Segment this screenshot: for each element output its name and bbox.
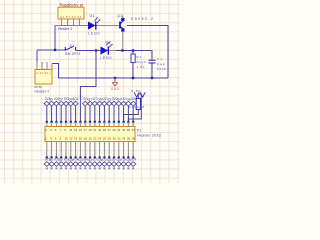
bottom pin 14 of P1 <box>75 142 77 158</box>
port flag (top pin 21) <box>92 101 97 106</box>
port flag (top pin 17) <box>83 101 88 106</box>
port flag (top pin 27) <box>107 101 112 106</box>
svg-text:34: 34 <box>122 136 126 140</box>
terminator mark (bottom pin 18) <box>84 167 86 169</box>
wire to top pin 33 <box>123 106 125 122</box>
svg-text:P1: P1 <box>137 129 141 133</box>
wire Q1 emitter down <box>122 34 124 51</box>
junction (top pin 7) <box>60 121 62 123</box>
port flag (top pin 7) <box>59 101 64 106</box>
ground symbol GND <box>112 78 118 86</box>
wire to top pin 19 <box>89 106 91 122</box>
wire to top pin 15 <box>79 106 81 122</box>
port flag (bottom pin 26) <box>102 162 107 167</box>
port flag (bottom pin 22) <box>92 162 97 167</box>
bottom pin 20 of P1 <box>89 142 91 158</box>
svg-text:27: 27 <box>108 128 112 132</box>
junction (bottom pin 2) <box>46 156 48 158</box>
port flag (bottom pin 34) <box>121 162 126 167</box>
svg-text:37: 37 <box>132 128 136 132</box>
terminator mark (bottom pin 4) <box>51 167 53 169</box>
wire to top pin 17 <box>84 106 86 122</box>
junction (bottom pin 20) <box>89 156 91 158</box>
terminator mark (bottom pin 22) <box>94 167 96 169</box>
port flag (top pin 9) <box>63 101 68 106</box>
svg-text:GL5528: GL5528 <box>129 105 145 109</box>
port flag (bottom pin 20) <box>87 162 92 167</box>
top pin 5 of P1 <box>55 122 57 127</box>
svg-text:35: 35 <box>127 128 131 132</box>
wire to top pin 1 <box>46 106 48 122</box>
svg-text:GND: GND <box>111 87 120 91</box>
bottom pin 6 of P1 <box>55 142 57 158</box>
junction (bottom pin 10) <box>65 156 67 158</box>
bottom pin 8 of P1 <box>60 142 62 158</box>
junction at 96,50 <box>95 49 97 51</box>
bottom pin 12 of P1 <box>70 142 72 158</box>
transistor Q1 <box>120 16 125 35</box>
wire R2 bottom terminal to header <box>124 110 139 123</box>
svg-text:25: 25 <box>103 128 107 132</box>
terminator mark (bottom pin 34) <box>123 167 125 169</box>
svg-text:18: 18 <box>84 136 88 140</box>
junction (top pin 29) <box>113 121 115 123</box>
bottom pin 10 of P1 <box>65 142 67 158</box>
junction (bottom pin 26) <box>103 156 105 158</box>
svg-text:12: 12 <box>69 136 73 140</box>
connector P1 GPIO header box <box>45 127 135 142</box>
wire to top pin 9 <box>65 106 67 122</box>
terminator mark (bottom pin 28) <box>108 167 110 169</box>
wire switch net down to J2 pin1 <box>36 51 38 63</box>
junction (bottom pin 6) <box>55 156 57 158</box>
terminator mark (bottom pin 26) <box>103 167 105 169</box>
svg-text:D2: D2 <box>106 40 112 44</box>
wire left segment to S1 <box>37 49 65 51</box>
top pin 35 of P1 <box>127 122 129 127</box>
svg-text:26: 26 <box>103 136 107 140</box>
junction (bottom pin 18) <box>84 156 86 158</box>
port flag (bottom pin 4) <box>49 162 54 167</box>
pin 3 of J1 <box>73 19 75 25</box>
connector J2 (slim header) box <box>35 70 52 85</box>
top pin 33 of P1 <box>123 122 125 127</box>
wire R2 top terminal to header <box>128 94 141 122</box>
junction (top pin 17) <box>84 121 86 123</box>
svg-text:C1: C1 <box>157 57 162 61</box>
junction (top pin 5) <box>55 121 57 123</box>
junction (top pin 37) <box>132 121 134 123</box>
port flag (top pin 35) <box>126 101 131 106</box>
svg-text:14: 14 <box>74 136 78 140</box>
junction (bottom pin 36) <box>127 156 129 158</box>
svg-text:16: 16 <box>79 136 83 140</box>
port flag (bottom pin 6) <box>54 162 59 167</box>
wire D2 cathode to R1/C1 <box>109 50 116 52</box>
terminator mark (bottom pin 10) <box>65 167 67 169</box>
port flag (top pin 33) <box>121 101 126 106</box>
svg-text:LED0: LED0 <box>88 31 100 35</box>
wire J2 pin4 to ground rail <box>52 64 59 79</box>
port flag (bottom pin 14) <box>73 162 78 167</box>
capacitor C1 <box>149 60 156 63</box>
svg-text:Header 4: Header 4 <box>35 89 50 93</box>
top pin 11 of P1 <box>70 122 72 127</box>
wire to top pin 35 <box>127 106 129 122</box>
bottom pins of P1 <box>44 142 136 170</box>
bottom pin 30 of P1 <box>113 142 115 158</box>
svg-text:5.5K: 5.5K <box>131 89 141 93</box>
terminator mark (bottom pin 38) <box>132 167 134 169</box>
top pins of P1 <box>44 97 136 127</box>
svg-text:Q1: Q1 <box>117 14 123 18</box>
port flag (bottom pin 38) <box>131 162 136 167</box>
bottom pin 38 of P1 <box>132 142 134 158</box>
junction (bottom pin 38) <box>132 156 134 158</box>
wire to top pin 5 <box>55 106 57 122</box>
svg-text:S8050-2: S8050-2 <box>131 17 153 21</box>
top pin 31 of P1 <box>118 122 120 127</box>
wire C1 bottom to rail <box>151 64 153 79</box>
svg-text:17: 17 <box>84 128 88 132</box>
svg-text:IO9: IO9 <box>131 158 136 162</box>
bottom pin 24 of P1 <box>99 142 101 158</box>
svg-text:Raspberry pi: Raspberry pi <box>60 2 84 7</box>
port flag (top pin 29) <box>111 101 116 106</box>
svg-text:10uF: 10uF <box>157 67 166 71</box>
svg-text:S1: S1 <box>70 44 75 48</box>
svg-text:Res2: Res2 <box>137 60 146 64</box>
junction (bottom pin 12) <box>70 156 72 158</box>
junction (bottom pin 24) <box>99 156 101 158</box>
bottom pin 2 of P1 <box>46 142 48 158</box>
svg-text:D1: D1 <box>90 14 95 18</box>
wire S1 to D2 anode <box>76 50 101 52</box>
pin number rows inside P1 <box>45 128 135 140</box>
wire from J1 pins to D1 anode <box>55 25 88 27</box>
junction (top pin 3) <box>51 121 53 123</box>
top pin 37 of P1 <box>132 122 134 127</box>
terminator mark (bottom pin 16) <box>79 167 81 169</box>
wire to top pin 13 <box>75 106 77 122</box>
port flag (top pin 11) <box>68 101 73 106</box>
LED D1 <box>88 18 100 30</box>
port flag (top pin 19) <box>87 101 92 106</box>
port flag (bottom pin 10) <box>63 162 68 167</box>
junction (bottom pin 22) <box>94 156 96 158</box>
junction (top pin 15) <box>79 121 81 123</box>
svg-text:Header 20X2: Header 20X2 <box>137 134 161 138</box>
svg-text:30: 30 <box>112 136 116 140</box>
junction (bottom pin 14) <box>75 156 77 158</box>
top pin 9 of P1 <box>65 122 67 127</box>
svg-text:31: 31 <box>117 128 121 132</box>
port flag (bottom pin 8) <box>59 162 64 167</box>
terminator mark (bottom pin 14) <box>75 167 77 169</box>
wire to top pin 31 <box>118 106 120 122</box>
junction (bottom pin 16) <box>79 156 81 158</box>
bottom pin 32 of P1 <box>118 142 120 158</box>
port flag (top pin 25) <box>102 101 107 106</box>
top pin 23 of P1 <box>99 122 101 127</box>
port flag (top pin 37) <box>131 101 136 106</box>
wire switch net drop to header P1 <box>80 51 96 107</box>
wire to top pin 7 <box>60 106 62 122</box>
svg-text:36: 36 <box>127 136 131 140</box>
bottom pin 22 of P1 <box>94 142 96 158</box>
svg-text:10: 10 <box>64 136 68 140</box>
junction (bottom pin 4) <box>51 156 53 158</box>
switch S1 <box>65 46 75 50</box>
svg-text:IO9: IO9 <box>131 97 136 101</box>
junction (top pin 35) <box>127 121 129 123</box>
terminator mark (bottom pin 8) <box>60 167 62 169</box>
svg-text:24: 24 <box>98 136 102 140</box>
junction (top pin 9) <box>65 121 67 123</box>
wire Q1 collector to right rail <box>127 26 168 79</box>
svg-text:LED0: LED0 <box>100 56 112 60</box>
pin 2 of J1 <box>67 19 69 25</box>
bottom pin 28 of P1 <box>108 142 110 158</box>
junction (top pin 31) <box>118 121 120 123</box>
junction at 133,78 <box>132 77 134 79</box>
svg-text:38: 38 <box>132 136 136 140</box>
top pin 1 of P1 <box>46 122 48 127</box>
top pin 3 of P1 <box>51 122 53 127</box>
connector J1 Raspberry pi header box <box>58 7 84 19</box>
svg-text:21: 21 <box>93 128 97 132</box>
wire to top pin 29 <box>113 106 115 122</box>
junction (top pin 19) <box>89 121 91 123</box>
junction at 122.5,50 <box>121 49 123 51</box>
terminator mark (bottom pin 20) <box>89 167 91 169</box>
junction (top pin 25) <box>103 121 105 123</box>
pin 1 of J1 <box>61 19 63 25</box>
port flag (bottom pin 2) <box>44 162 49 167</box>
junction (bottom pin 8) <box>60 156 62 158</box>
top pin 27 of P1 <box>108 122 110 127</box>
svg-text:32: 32 <box>117 136 121 140</box>
junction (top pin 27) <box>108 121 110 123</box>
wire to top pin 25 <box>103 106 105 122</box>
junction at 55,50 <box>54 49 56 51</box>
junction (top pin 33) <box>123 121 125 123</box>
svg-text:28: 28 <box>108 136 112 140</box>
bottom pin 4 of P1 <box>51 142 53 158</box>
junction (bottom pin 30) <box>113 156 115 158</box>
svg-text:15: 15 <box>79 128 83 132</box>
port flag (bottom pin 24) <box>97 162 102 167</box>
svg-text:Cap: Cap <box>157 62 165 66</box>
svg-text:R1: R1 <box>137 55 142 59</box>
junction (bottom pin 28) <box>108 156 110 158</box>
port flag (bottom pin 16) <box>78 162 83 167</box>
svg-text:29: 29 <box>112 128 116 132</box>
svg-text:22: 22 <box>93 136 97 140</box>
LED D2 <box>101 42 113 55</box>
svg-text:SW-SPST: SW-SPST <box>65 52 81 56</box>
top pin 19 of P1 <box>89 122 91 127</box>
port flag (bottom pin 36) <box>126 162 131 167</box>
port flag (top pin 23) <box>97 101 102 106</box>
ground rail wire <box>59 77 169 79</box>
port flag (bottom pin 18) <box>83 162 88 167</box>
bottom pin 36 of P1 <box>127 142 129 158</box>
wire to top pin 21 <box>94 106 96 122</box>
junction (top pin 21) <box>94 121 96 123</box>
port flag (top pin 5) <box>54 101 59 106</box>
svg-text:20: 20 <box>88 136 92 140</box>
port flag (bottom pin 28) <box>107 162 112 167</box>
junction (bottom pin 34) <box>123 156 125 158</box>
port flag (bottom pin 32) <box>116 162 121 167</box>
pin 1 of J2 <box>36 62 38 70</box>
junction (top pin 23) <box>99 121 101 123</box>
wire J1 pin1 down to switch <box>54 26 56 51</box>
svg-text:19: 19 <box>88 128 92 132</box>
wire to top pin 27 <box>108 106 110 122</box>
terminator mark (bottom pin 6) <box>55 167 57 169</box>
terminator mark (bottom pin 24) <box>99 167 101 169</box>
junction (top pin 11) <box>70 121 72 123</box>
bottom pin 26 of P1 <box>103 142 105 158</box>
wire to top pin 23 <box>99 106 101 122</box>
resistor R1 <box>131 51 135 79</box>
svg-text:33: 33 <box>122 128 126 132</box>
junction (top pin 1) <box>46 121 48 123</box>
bottom pin 34 of P1 <box>123 142 125 158</box>
bottom pin 16 of P1 <box>79 142 81 158</box>
port flag (top pin 3) <box>49 101 54 106</box>
svg-text:w1 P1 P2 G1: w1 P1 P2 G1 <box>60 15 82 19</box>
wire to top pin 3 <box>51 106 53 122</box>
junction at 152,78 <box>151 77 153 79</box>
svg-text:IO4: IO4 <box>73 97 78 101</box>
terminator mark (bottom pin 30) <box>113 167 115 169</box>
svg-text:11: 11 <box>69 128 72 132</box>
svg-text:1.8K: 1.8K <box>137 65 145 69</box>
svg-text:13: 13 <box>74 128 78 132</box>
svg-text:w P1 P2 x: w P1 P2 x <box>37 72 52 75</box>
port flag (top pin 1) <box>44 101 49 106</box>
pin 2 of J2 <box>41 62 43 70</box>
terminator mark (bottom pin 36) <box>127 167 129 169</box>
junction (bottom pin 32) <box>118 156 120 158</box>
junction at 133,50 <box>132 49 134 51</box>
pin 4 of J2 <box>51 64 53 70</box>
port flag (top pin 31) <box>116 101 121 106</box>
wire D1 cathode to Q1 base <box>97 25 120 27</box>
port flag (bottom pin 12) <box>68 162 73 167</box>
junction at 115,78 <box>114 77 116 79</box>
top pin 15 of P1 <box>79 122 81 127</box>
top pin 13 of P1 <box>75 122 77 127</box>
pin 4 of J1 <box>79 19 81 25</box>
terminator mark (bottom pin 32) <box>118 167 120 169</box>
port flag (bottom pin 30) <box>111 162 116 167</box>
bottom pin 18 of P1 <box>84 142 86 158</box>
top pin 7 of P1 <box>60 122 62 127</box>
top pin 29 of P1 <box>113 122 115 127</box>
wire to top pin 37 <box>132 106 134 122</box>
top pin 25 of P1 <box>103 122 105 127</box>
terminator mark (bottom pin 2) <box>46 167 48 169</box>
junction (top pin 13) <box>75 121 77 123</box>
top pin 17 of P1 <box>84 122 86 127</box>
pin 3 of J2 <box>46 62 48 70</box>
port flag (top pin 13) <box>73 101 78 106</box>
svg-text:23: 23 <box>98 128 102 132</box>
wire to top pin 11 <box>70 106 72 122</box>
terminator mark (bottom pin 12) <box>70 167 72 169</box>
photoresistor R2 <box>134 92 145 109</box>
top pin 21 of P1 <box>94 122 96 127</box>
svg-text:Header 4: Header 4 <box>58 27 72 31</box>
